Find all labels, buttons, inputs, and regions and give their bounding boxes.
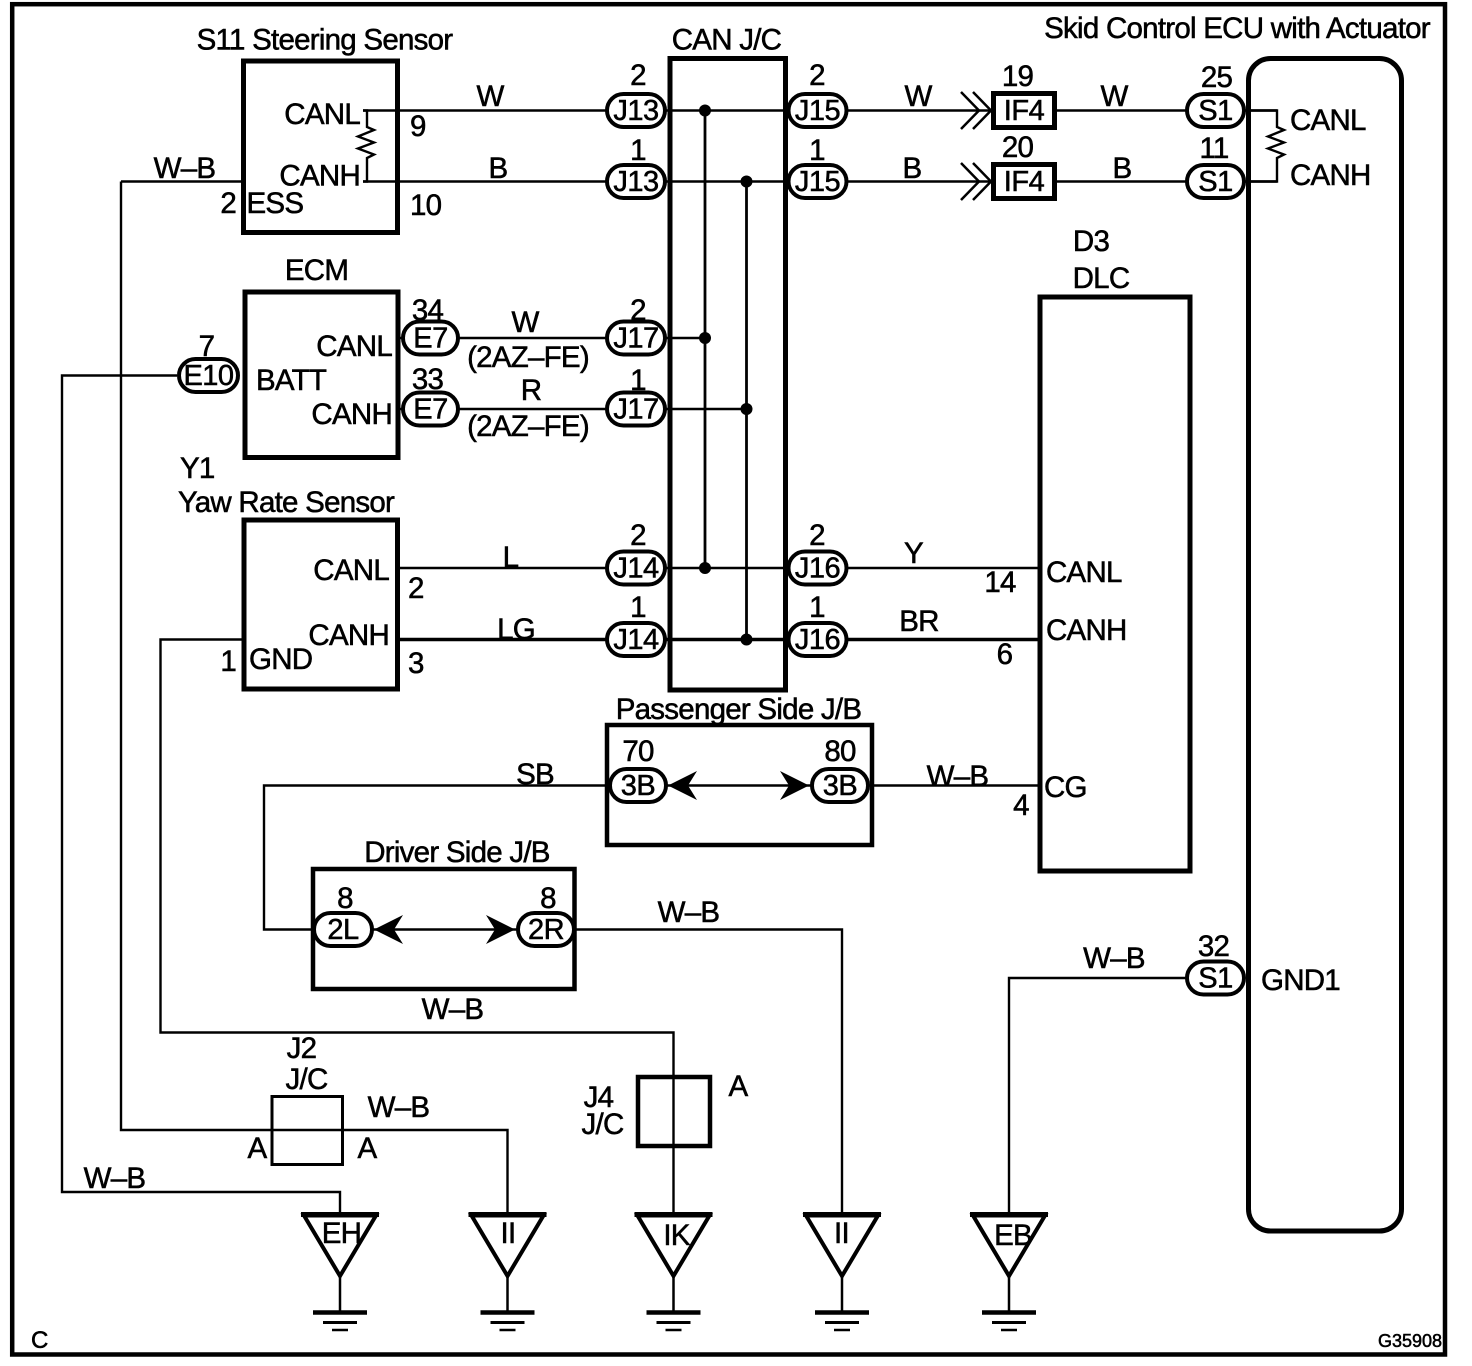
svg-text:W: W	[1100, 80, 1128, 113]
svg-text:32: 32	[1198, 930, 1229, 963]
wire BATT: E10 left then down then to EH ground	[62, 376, 340, 1215]
svg-text:J13: J13	[613, 166, 658, 198]
svg-text:9: 9	[410, 110, 426, 143]
passenger J/B right-pointing arrow	[780, 771, 809, 800]
svg-text:D3: D3	[1073, 225, 1110, 258]
svg-text:Yaw Rate Sensor: Yaw Rate Sensor	[178, 486, 395, 519]
svg-text:CANH: CANH	[1046, 614, 1127, 647]
svg-text:W–B: W–B	[927, 760, 989, 793]
svg-text:GND: GND	[249, 643, 312, 676]
svg-text:3B: 3B	[823, 770, 857, 802]
svg-text:CANL: CANL	[316, 330, 392, 363]
svg-text:B: B	[903, 152, 922, 185]
connector S1 pin 25	[1187, 94, 1244, 127]
J2 J/C box	[272, 1097, 343, 1165]
svg-text:A: A	[729, 1070, 749, 1103]
svg-text:1: 1	[220, 645, 236, 678]
wire W-B into S11 ESS	[121, 180, 244, 182]
svg-text:2: 2	[408, 572, 424, 605]
svg-text:DLC: DLC	[1073, 262, 1130, 295]
svg-text:20: 20	[1002, 131, 1034, 164]
wire W(2AZ-FE): ECM CANL E7 to J17 to node (y=338)	[398, 337, 705, 339]
svg-text:2: 2	[809, 59, 825, 92]
connector E7 pin 34	[403, 322, 458, 355]
connector J13 pin 2	[607, 94, 665, 127]
svg-text:Y: Y	[904, 537, 924, 570]
svg-text:E7: E7	[413, 323, 447, 355]
svg-text:S1: S1	[1198, 95, 1232, 127]
svg-text:B: B	[489, 152, 508, 185]
svg-text:CANH: CANH	[308, 619, 389, 652]
splice chevron before IF4 pin19	[961, 92, 979, 129]
junction node LG/bus2	[741, 634, 753, 646]
connector S1 pin 32	[1187, 962, 1244, 995]
svg-text:IK: IK	[663, 1219, 690, 1252]
vertical bus 2 inside CAN J/C	[745, 182, 748, 640]
svg-text:L: L	[503, 541, 519, 574]
ground II (right) triangle	[803, 1215, 881, 1331]
svg-text:2: 2	[630, 59, 646, 92]
connector 2L pin 8	[314, 913, 372, 946]
Skid Control ECU with Actuator box	[1249, 59, 1402, 1232]
splice IF4 pin 20	[994, 165, 1055, 199]
Y1 Yaw Rate Sensor box	[244, 520, 398, 689]
junction node ECM-W/bus1	[699, 332, 711, 344]
wire W-B to S1 GND1 and down to EB ground	[1009, 978, 1188, 1214]
svg-text:CG: CG	[1044, 771, 1087, 804]
connector J17 pin 2	[607, 322, 665, 355]
svg-text:E10: E10	[183, 360, 233, 392]
svg-text:CAN J/C: CAN J/C	[672, 24, 782, 57]
svg-text:11: 11	[1199, 132, 1228, 165]
svg-text:2: 2	[220, 187, 236, 220]
svg-text:70: 70	[622, 735, 654, 768]
wire inside driver J/B and W-B from 2R down to II ground	[314, 930, 842, 1215]
svg-text:4: 4	[1013, 789, 1029, 822]
connector J17 pin 1	[607, 393, 665, 426]
passenger J/B left-pointing arrow	[668, 771, 697, 800]
splice IF4 pin 19	[994, 94, 1055, 128]
wire R(2AZ-FE): ECM CANH E7 to J17 to node (y=409)	[398, 408, 747, 410]
svg-text:J14: J14	[613, 624, 659, 656]
ground II (left) triangle	[469, 1215, 547, 1331]
svg-text:14: 14	[984, 566, 1016, 599]
svg-text:BATT: BATT	[256, 364, 327, 397]
svg-text:Y1: Y1	[180, 452, 215, 485]
svg-text:B: B	[1113, 152, 1132, 185]
svg-text:J14: J14	[613, 553, 659, 585]
svg-text:J15: J15	[795, 166, 840, 198]
svg-text:A: A	[248, 1132, 268, 1165]
wire LG/BR: Yaw CANH to J14 to J16 to DLC CANH (y=639.5)	[398, 638, 1041, 642]
svg-text:CANL: CANL	[1046, 556, 1122, 589]
svg-text:S11 Steering Sensor: S11 Steering Sensor	[197, 24, 454, 57]
connector 3B pin 80	[812, 769, 868, 802]
connector E10 pin 7	[179, 359, 238, 392]
Passenger Side J/B box	[607, 725, 872, 845]
svg-text:6: 6	[997, 638, 1013, 671]
svg-text:10: 10	[410, 189, 442, 222]
svg-text:ECM: ECM	[285, 254, 348, 287]
svg-text:3B: 3B	[621, 770, 655, 802]
svg-text:J16: J16	[795, 624, 840, 656]
connector 2R pin 8	[518, 913, 574, 946]
wire B: S11 CANH row (y=181.5)	[363, 180, 1277, 182]
splice chevron before IF4 pin20	[961, 163, 979, 200]
connector E7 pin 33	[403, 393, 458, 426]
wire W-B: S11 down to J2 J/C then to II ground	[121, 182, 508, 1215]
connector 3B pin 70	[610, 769, 666, 802]
svg-text:W–B: W–B	[1083, 942, 1145, 975]
wire W: S11 CANL to CAN J/C to J15 to IF4 to S1 (row y=110.5)	[363, 109, 1277, 111]
svg-text:8: 8	[540, 882, 556, 915]
svg-text:R: R	[521, 374, 542, 407]
svg-text:J15: J15	[795, 95, 840, 127]
svg-text:7: 7	[199, 330, 215, 363]
svg-text:1: 1	[630, 364, 646, 397]
svg-text:J13: J13	[613, 95, 658, 127]
svg-text:W–B: W–B	[422, 993, 484, 1026]
svg-text:J/C: J/C	[286, 1063, 328, 1096]
Driver Side J/B box	[313, 869, 575, 989]
svg-text:J17: J17	[613, 394, 658, 426]
svg-text:19: 19	[1002, 60, 1034, 93]
connector J13 pin 1	[607, 165, 665, 198]
connector J16 pin 2	[789, 552, 847, 585]
svg-text:J2: J2	[287, 1032, 317, 1065]
svg-text:8: 8	[337, 882, 353, 915]
svg-text:W: W	[904, 80, 932, 113]
junction node B/bus2	[741, 176, 753, 188]
svg-text:1: 1	[809, 134, 825, 167]
S11 Steering Sensor box	[244, 61, 398, 233]
svg-text:J/C: J/C	[582, 1108, 624, 1141]
svg-text:2R: 2R	[528, 914, 564, 946]
ground EB triangle	[970, 1215, 1048, 1331]
svg-text:SB: SB	[516, 758, 554, 791]
svg-text:W: W	[476, 80, 504, 113]
ground IK triangle	[635, 1215, 713, 1331]
svg-text:1: 1	[809, 591, 825, 624]
svg-text:Passenger Side J/B: Passenger Side J/B	[616, 693, 862, 726]
svg-text:IF4: IF4	[1004, 95, 1045, 127]
svg-text:2: 2	[630, 519, 646, 552]
svg-text:25: 25	[1201, 61, 1233, 94]
svg-text:1: 1	[630, 134, 646, 167]
connector J16 pin 1	[789, 623, 847, 656]
connector J14 pin 2	[607, 552, 665, 585]
wire L/Y: Yaw CANL to J14 to J16 to DLC CANL (y=568)	[398, 567, 1041, 569]
wire GND: yaw pin1 left, down, right to J4 J/C, down to IK ground	[161, 640, 674, 1215]
vertical bus 1 inside CAN J/C	[704, 111, 707, 569]
svg-text:W–B: W–B	[84, 1162, 146, 1195]
svg-text:Skid Control ECU with Actuator: Skid Control ECU with Actuator	[1044, 12, 1431, 45]
junction node ECM-R/bus2	[741, 403, 753, 415]
svg-text:II: II	[834, 1217, 849, 1250]
svg-text:GND1: GND1	[1261, 964, 1340, 997]
driver J/B left-pointing arrow	[374, 915, 403, 944]
svg-text:1: 1	[630, 591, 646, 624]
wire W-B: passenger J/B to DLC CG (y=785.5)	[607, 784, 1040, 786]
svg-text:CANH: CANH	[279, 160, 360, 193]
svg-text:(2AZ–FE): (2AZ–FE)	[467, 410, 589, 443]
svg-text:W–B: W–B	[368, 1091, 430, 1124]
svg-text:II: II	[501, 1217, 516, 1250]
svg-text:2L: 2L	[327, 914, 359, 946]
svg-text:CANL: CANL	[1290, 104, 1366, 137]
resistor inside S11 (between CANL and CANH)	[358, 111, 374, 182]
svg-text:E7: E7	[413, 394, 447, 426]
svg-text:W: W	[511, 306, 539, 339]
J4 J/C box	[638, 1077, 710, 1146]
driver J/B right-pointing arrow	[486, 915, 515, 944]
svg-text:LG: LG	[497, 613, 535, 646]
svg-text:IF4: IF4	[1004, 166, 1045, 198]
junction node W/bus1	[699, 105, 711, 117]
connector J14 pin 1	[607, 623, 665, 656]
ground EH triangle	[301, 1215, 379, 1331]
junction node L/bus1	[699, 562, 711, 574]
svg-text:A: A	[358, 1132, 378, 1165]
connector J15 pin 2	[789, 94, 847, 127]
svg-text:W–B: W–B	[658, 896, 720, 929]
svg-text:CANH: CANH	[1290, 159, 1371, 192]
svg-text:(2AZ–FE): (2AZ–FE)	[467, 341, 589, 374]
svg-text:EB: EB	[994, 1219, 1032, 1252]
svg-text:BR: BR	[899, 605, 938, 638]
D3 DLC box	[1040, 297, 1190, 871]
svg-text:CANL: CANL	[284, 98, 360, 131]
svg-text:S1: S1	[1198, 166, 1232, 198]
svg-text:3: 3	[408, 647, 424, 680]
svg-text:S1: S1	[1198, 963, 1232, 995]
CAN J/C box	[670, 59, 786, 691]
connector J15 pin 1	[789, 165, 847, 198]
svg-text:W–B: W–B	[154, 152, 216, 185]
resistor inside Skid Control ECU	[1246, 111, 1284, 182]
svg-text:33: 33	[412, 363, 444, 396]
svg-text:Driver Side J/B: Driver Side J/B	[364, 836, 550, 869]
svg-text:80: 80	[824, 735, 856, 768]
svg-text:C: C	[31, 1327, 48, 1354]
wire SB: passenger 3B to left, down, to driver 2L	[264, 786, 607, 930]
svg-text:G35908: G35908	[1378, 1331, 1442, 1351]
connector S1 pin 11	[1187, 165, 1244, 198]
svg-text:CANH: CANH	[311, 398, 392, 431]
svg-text:2: 2	[809, 519, 825, 552]
svg-text:J16: J16	[795, 553, 840, 585]
svg-text:J17: J17	[613, 323, 658, 355]
svg-text:CANL: CANL	[313, 554, 389, 587]
ECM box	[245, 292, 398, 458]
svg-text:EH: EH	[322, 1217, 361, 1250]
